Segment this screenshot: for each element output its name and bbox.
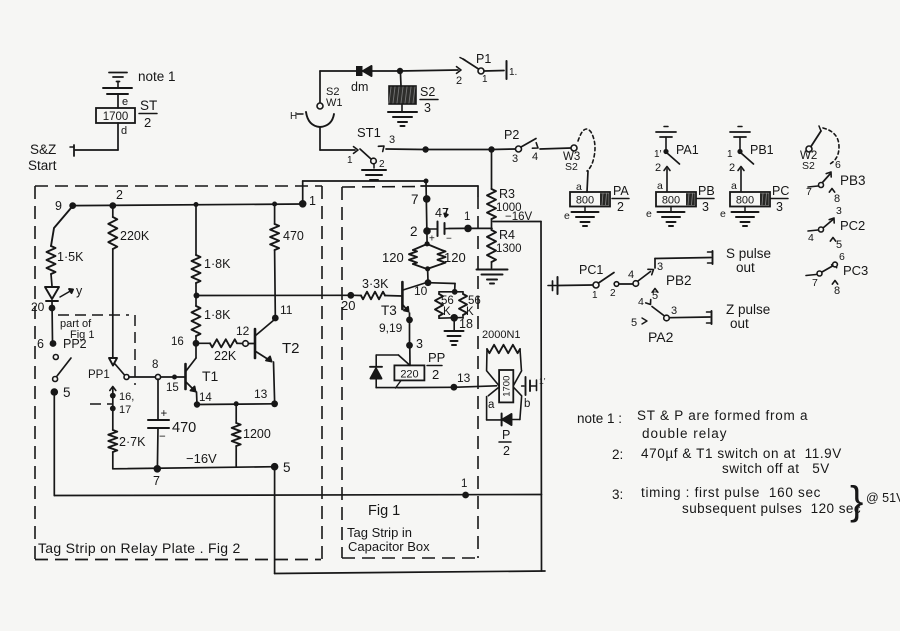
- svg-text:1700: 1700: [103, 111, 129, 123]
- svg-text:16,: 16,: [119, 391, 134, 403]
- svg-text:220: 220: [400, 369, 418, 381]
- svg-text:120: 120: [382, 250, 404, 265]
- junction above 120 pair: [425, 241, 430, 246]
- svg-text:ST: ST: [140, 98, 157, 113]
- label 120 left: [382, 250, 404, 265]
- wire node to switch P1: [400, 70, 458, 71]
- resistor 220K: [108, 206, 117, 358]
- label PC3: [843, 263, 868, 278]
- svg-text:2·7K: 2·7K: [119, 435, 146, 449]
- wire riser into Fig1: [426, 181, 427, 244]
- label W2 S2: [800, 150, 817, 172]
- contact 6 (PB3): [826, 159, 841, 177]
- svg-text:a: a: [657, 180, 663, 192]
- note1 label: [138, 69, 176, 84]
- wire ST1 to P2: [386, 148, 424, 151]
- svg-text:7: 7: [411, 192, 419, 207]
- wire node1 to R4 rail: [472, 227, 493, 229]
- wire PP1 to node 8: [129, 376, 155, 378]
- ground below PA: [572, 207, 599, 227]
- label PC1: [579, 263, 603, 277]
- node 1 (Fig1): [464, 211, 472, 232]
- note 1 text: [577, 408, 808, 441]
- svg-text:e: e: [720, 208, 726, 220]
- junction riser corner: [424, 179, 429, 184]
- svg-text:9: 9: [55, 199, 62, 213]
- label PB1: [750, 143, 774, 157]
- wire segment to P2: [492, 148, 516, 151]
- label ST1: [357, 125, 381, 140]
- svg-text:4: 4: [638, 296, 644, 308]
- junction top of 470: [272, 202, 277, 207]
- switch PB2 pole: [628, 261, 663, 286]
- switch P2: [512, 139, 538, 166]
- svg-text:1200: 1200: [243, 427, 271, 441]
- relay coil PA 800: [570, 184, 629, 214]
- svg-text:2: 2: [379, 159, 385, 170]
- ground below ST1: [362, 164, 386, 180]
- caption Capacitor Box: [348, 539, 430, 554]
- svg-text:11: 11: [280, 303, 293, 317]
- switch PP1 pole: [88, 358, 129, 381]
- wire PA2 to Z pulse out: [669, 316, 710, 319]
- wire node14 to node13: [197, 403, 275, 406]
- svg-text:PC3: PC3: [843, 263, 868, 278]
- diode dm: [356, 66, 372, 76]
- svg-text:22K: 22K: [214, 349, 237, 363]
- svg-text:e: e: [564, 210, 570, 222]
- svg-text:470: 470: [283, 229, 304, 243]
- resistor 1200: [232, 404, 241, 467]
- node 17 tick: [110, 404, 131, 416]
- svg-text:@ 51V: @ 51V: [866, 491, 900, 505]
- svg-text:9,19: 9,19: [379, 321, 403, 335]
- svg-text:double relay: double relay: [642, 426, 728, 441]
- svg-text:16: 16: [171, 336, 184, 348]
- svg-text:3: 3: [657, 261, 663, 273]
- relay ST contact e plates: [103, 82, 132, 95]
- svg-text:14: 14: [199, 392, 212, 404]
- label 470 (left box): [283, 229, 304, 243]
- node 18: [439, 314, 473, 331]
- ground below PB: [658, 207, 685, 227]
- svg-text:note 1: note 1: [138, 69, 176, 84]
- svg-text:R3: R3: [499, 187, 515, 201]
- capacitor 470 electrolytic: [148, 379, 169, 468]
- svg-text:120: 120: [444, 250, 466, 265]
- wire loop around diode PP: [376, 355, 410, 388]
- junction below 120 pair: [425, 266, 430, 271]
- dashed box Fig1 Capacitor Box: [342, 186, 478, 558]
- wire R4 to ground: [491, 262, 493, 268]
- svg-text:1·8K: 1·8K: [204, 257, 231, 271]
- node 3 (Fig1): [406, 337, 423, 351]
- caption Fig 2: [38, 540, 241, 556]
- contact 6 (PC3): [832, 251, 845, 268]
- resistor 2.7K: [108, 430, 117, 469]
- svg-text:P: P: [502, 428, 510, 442]
- svg-text:out: out: [730, 316, 749, 331]
- svg-text:2: 2: [410, 224, 418, 239]
- wire node5 down: [53, 396, 55, 496]
- pin a (P): [488, 399, 495, 411]
- diode (PP clamp): [370, 367, 382, 379]
- resistor 56K right: [455, 292, 467, 315]
- pin label d (ST): [121, 125, 127, 137]
- svg-text:}: }: [850, 479, 863, 523]
- wire P1 to terminal: [484, 70, 504, 73]
- label 3.3K: [362, 277, 389, 291]
- resistor 22K: [199, 339, 243, 347]
- svg-text:2: 2: [729, 162, 735, 174]
- svg-text:2: 2: [432, 367, 439, 382]
- label S pulse out: [726, 246, 771, 275]
- svg-text:PP2: PP2: [63, 337, 87, 351]
- svg-text:5: 5: [631, 317, 637, 329]
- wire contact-e to coil ST: [117, 94, 119, 108]
- svg-text:220K: 220K: [120, 229, 150, 243]
- wire cap47 to node 1: [449, 227, 464, 229]
- switch PA2: [638, 296, 677, 321]
- relay coil S2/3 hatched: [389, 86, 416, 104]
- svg-text:W1: W1: [326, 97, 343, 109]
- svg-text:1: 1: [309, 194, 316, 208]
- diode P: [502, 414, 512, 426]
- arrow to label y: [60, 284, 83, 298]
- svg-text:S2: S2: [802, 160, 815, 172]
- junction 1200 top: [234, 401, 239, 406]
- svg-text:Start: Start: [28, 158, 57, 173]
- label P2: [504, 128, 519, 142]
- junction top of 1.8K: [194, 202, 199, 207]
- wire node3 to coil PP: [409, 348, 411, 365]
- relay coil PP 220: [394, 365, 424, 380]
- wire loop right of diode P: [512, 397, 522, 420]
- svg-text:S2: S2: [565, 161, 578, 173]
- svg-text:470µf & T1 switch on at 11.9V: 470µf & T1 switch on at 11.9V: [641, 446, 842, 461]
- node 2: [109, 188, 123, 209]
- node 11: [272, 303, 293, 321]
- svg-text:2: 2: [655, 162, 661, 174]
- coil P right diagonals: [513, 371, 521, 396]
- capacitor 47: [429, 222, 452, 245]
- label P/2: [499, 428, 511, 458]
- svg-text:8: 8: [834, 193, 840, 205]
- relay coil P 1700 (vertical): [499, 370, 513, 402]
- svg-text:6: 6: [37, 337, 44, 351]
- node 7 (Fig1): [411, 192, 431, 207]
- label 1.8K upper: [204, 257, 231, 271]
- arrow above node 16-17: [110, 387, 116, 391]
- svg-text:T3: T3: [381, 303, 397, 318]
- wire node to R3: [491, 152, 493, 189]
- node 13 (Fig1): [451, 371, 471, 391]
- svg-text:S2: S2: [420, 85, 435, 99]
- ground below S2/3: [388, 104, 417, 126]
- node 20 (Fig1): [341, 292, 355, 313]
- pin label e (ST): [122, 96, 128, 108]
- wire node13 to coil P: [457, 386, 497, 387]
- node 5 (right end): [271, 460, 291, 475]
- svg-text:3:: 3:: [612, 487, 623, 502]
- junction to node 20 wire: [194, 293, 200, 299]
- wire coil PP to node 13: [398, 386, 452, 388]
- junction 56K top: [452, 289, 458, 295]
- svg-text:switch off at 5V: switch off at 5V: [722, 461, 830, 476]
- svg-text:7: 7: [812, 277, 818, 289]
- node 5 (left): [51, 385, 71, 400]
- relay coil PC 800: [730, 184, 789, 214]
- label Z pulse out: [726, 302, 770, 331]
- svg-text:1·5K: 1·5K: [57, 250, 84, 264]
- svg-text:2:: 2:: [612, 447, 623, 462]
- wire LED to node 20: [51, 301, 54, 342]
- wire 120 to node 10: [427, 269, 429, 281]
- svg-text:800: 800: [662, 195, 680, 207]
- wire PA1 to coil PB: [666, 169, 668, 191]
- pin e (PC): [720, 208, 726, 220]
- pin b (P): [524, 398, 530, 410]
- svg-text:1.: 1.: [509, 67, 517, 78]
- label -16V (R3): [505, 211, 533, 223]
- svg-text:PC: PC: [772, 184, 789, 198]
- pin e (PB): [646, 208, 652, 220]
- svg-text:R4: R4: [499, 228, 515, 242]
- S pulse out terminal: [708, 251, 713, 264]
- svg-text:6: 6: [835, 159, 841, 171]
- svg-text:1: 1: [461, 478, 467, 490]
- node 16 tick: [110, 391, 134, 403]
- switch PA1: [654, 137, 680, 174]
- svg-text:P2: P2: [504, 128, 519, 142]
- bottom long wire 2: [275, 571, 545, 574]
- svg-text:PA2: PA2: [648, 329, 674, 345]
- ground above relay ST: [109, 73, 127, 82]
- svg-text:7: 7: [153, 474, 160, 488]
- label R3 1000: [496, 187, 522, 214]
- svg-text:3: 3: [416, 337, 423, 351]
- ground below PC: [732, 207, 759, 227]
- svg-text:800: 800: [576, 195, 594, 207]
- wire PC1 to PB2: [619, 283, 633, 285]
- svg-text:2: 2: [617, 200, 624, 214]
- wire PB2 to S pulse out: [655, 258, 711, 269]
- junction node above R3: [488, 146, 494, 152]
- dashed partial box part-of-fig1: [58, 315, 135, 404]
- contact 8 (PC3): [832, 281, 840, 298]
- label T3: [381, 303, 397, 318]
- svg-text:2000N1: 2000N1: [482, 329, 521, 341]
- svg-text:13: 13: [254, 387, 268, 401]
- wire PB1 to coil PC: [740, 169, 742, 191]
- label 47: [435, 206, 449, 220]
- label P1: [476, 52, 491, 66]
- svg-text:3: 3: [512, 153, 518, 165]
- switch PP2: [53, 355, 71, 382]
- wire junction to right rail: [493, 221, 541, 223]
- svg-text:3: 3: [424, 101, 431, 115]
- resistor 2000N1: [487, 345, 522, 370]
- top rail wire (left box): [73, 204, 303, 206]
- svg-text:ST1: ST1: [357, 125, 381, 140]
- svg-text:3: 3: [702, 200, 709, 214]
- svg-text:subsequent pulses 120 sec: subsequent pulses 120 sec: [682, 501, 861, 516]
- svg-text:−: −: [159, 431, 166, 443]
- wire T2 emitter to node 13: [274, 362, 275, 401]
- contact 8 (PB3): [829, 189, 840, 206]
- svg-text:PB2: PB2: [666, 273, 692, 288]
- junction node above S2/3: [397, 68, 403, 74]
- label dm: [351, 80, 368, 94]
- wire loop left of diode P: [487, 397, 501, 420]
- svg-text:2: 2: [116, 188, 123, 202]
- wafer switch W3 S2: [563, 129, 595, 173]
- wire coil ST to S&Z start: [75, 123, 118, 150]
- resistor R3: [487, 189, 496, 219]
- wire dm to node: [372, 70, 400, 72]
- node 20 (left): [31, 300, 55, 314]
- svg-text:8: 8: [152, 359, 158, 371]
- label 120 right: [444, 250, 466, 265]
- wire node8 to T1 base: [161, 375, 185, 380]
- node 9: [55, 199, 76, 213]
- svg-text:20: 20: [341, 298, 355, 313]
- node 9,19: [379, 317, 413, 336]
- bottom rail -16V (left box): [113, 467, 275, 469]
- switch PC2: [808, 220, 833, 245]
- label S2 W1: [326, 86, 343, 109]
- resistor 120 left: [409, 244, 427, 269]
- wire W1 arc to main wire: [319, 127, 321, 150]
- node 8 contact: [152, 359, 161, 380]
- pin a (PB): [657, 180, 663, 192]
- wafer switch W2 S2: [806, 126, 839, 165]
- svg-text:7: 7: [806, 186, 812, 198]
- label ST/2: [139, 98, 157, 130]
- svg-text:18: 18: [459, 317, 473, 331]
- contact 5 (PB2): [652, 289, 658, 303]
- capacitor at pin b: [522, 376, 546, 395]
- label 2000N1: [482, 329, 521, 341]
- label PP2: [63, 337, 87, 351]
- svg-text:PP1: PP1: [88, 369, 110, 381]
- relay coil PB 800: [656, 184, 715, 214]
- note 3 brace: [850, 479, 900, 523]
- label 56K right: [466, 295, 481, 318]
- ground above PB1: [730, 127, 750, 138]
- svg-text:12: 12: [236, 324, 250, 338]
- coil P left diagonals: [487, 371, 500, 396]
- svg-text:5: 5: [283, 460, 291, 475]
- svg-text:17: 17: [119, 404, 131, 416]
- label -16V (left box): [186, 451, 217, 466]
- terminal before PC1: [548, 277, 558, 294]
- svg-text:out: out: [736, 260, 755, 275]
- wire W1 riser to diode dm: [320, 71, 356, 103]
- svg-text:T1: T1: [202, 368, 219, 384]
- svg-text:−16V: −16V: [186, 451, 217, 466]
- node 1 (left box): [299, 194, 316, 208]
- ground below R4: [477, 270, 508, 284]
- svg-text:PB3: PB3: [840, 173, 866, 188]
- label PP/2: [427, 350, 445, 382]
- svg-text:Tag Strip on Relay Plate . Fig: Tag Strip on Relay Plate . Fig 2: [38, 540, 241, 556]
- bottom long wire (node5 to rail): [54, 495, 541, 496]
- label 1200: [243, 427, 271, 441]
- dashed box Tag Strip on Relay Plate: [35, 186, 322, 560]
- label 1.8K lower: [204, 308, 231, 322]
- svg-text:1: 1: [482, 74, 488, 85]
- svg-text:13: 13: [457, 371, 471, 385]
- label part of Fig 1: [60, 318, 94, 341]
- svg-text:Tag Strip in: Tag Strip in: [347, 525, 412, 540]
- wire W3 to relay PA: [587, 171, 588, 192]
- label PA1: [676, 143, 699, 157]
- svg-text:3: 3: [671, 305, 677, 317]
- svg-text:e: e: [646, 208, 652, 220]
- svg-text:PA1: PA1: [676, 143, 699, 157]
- svg-text:timing : first pulse 160 sec: timing : first pulse 160 sec: [641, 485, 821, 500]
- node 6: [37, 337, 56, 351]
- svg-text:b: b: [524, 398, 530, 410]
- svg-text:PP: PP: [428, 350, 445, 365]
- note 2 text: [612, 446, 842, 476]
- svg-text:T2: T2: [282, 340, 300, 357]
- label 22K: [214, 349, 237, 363]
- label PB3: [840, 173, 866, 188]
- switch S2 W1: [290, 103, 334, 127]
- node 16 (T1 collector): [171, 336, 199, 348]
- pin a (PC): [731, 180, 737, 192]
- svg-text:S pulse: S pulse: [726, 246, 771, 261]
- resistor 470 (left box): [270, 206, 279, 315]
- svg-text:6: 6: [839, 251, 845, 263]
- svg-text:Fig 1: Fig 1: [368, 503, 400, 519]
- label PC2: [840, 218, 865, 233]
- svg-text:20: 20: [31, 300, 45, 314]
- junction node on main wire: [422, 146, 428, 152]
- node 12 contact (T2 base): [236, 324, 250, 346]
- pin e (PA): [564, 210, 570, 222]
- label 2.7K: [119, 435, 146, 449]
- svg-text:15: 15: [166, 382, 179, 394]
- wire node9 to 1.5K: [51, 208, 71, 246]
- wire node1 riser: [303, 181, 426, 204]
- transistor T2: [248, 320, 274, 362]
- label T2: [282, 340, 300, 357]
- svg-text:2: 2: [144, 115, 151, 130]
- resistor 3.3K: [353, 292, 402, 300]
- svg-text:3: 3: [776, 200, 783, 214]
- svg-text:1′: 1′: [539, 376, 546, 386]
- resistor R4: [487, 230, 496, 262]
- ST1 throw 3 arrow: [378, 134, 395, 152]
- svg-text:a: a: [488, 399, 495, 411]
- pin 15 (T1 base): [166, 382, 179, 394]
- svg-text:1700: 1700: [502, 376, 513, 397]
- resistor 1.8K lower: [192, 297, 201, 341]
- svg-text:1′: 1′: [654, 149, 662, 160]
- svg-text:2: 2: [503, 444, 510, 458]
- caption Fig 1: [368, 503, 400, 519]
- svg-text:PB: PB: [698, 184, 715, 198]
- resistor 56K left: [435, 292, 455, 316]
- svg-text:8: 8: [834, 285, 840, 297]
- svg-text:d: d: [121, 125, 127, 137]
- switch PB1: [727, 137, 754, 174]
- transistor T3: [402, 282, 425, 318]
- contact 5 (PA2): [631, 317, 647, 329]
